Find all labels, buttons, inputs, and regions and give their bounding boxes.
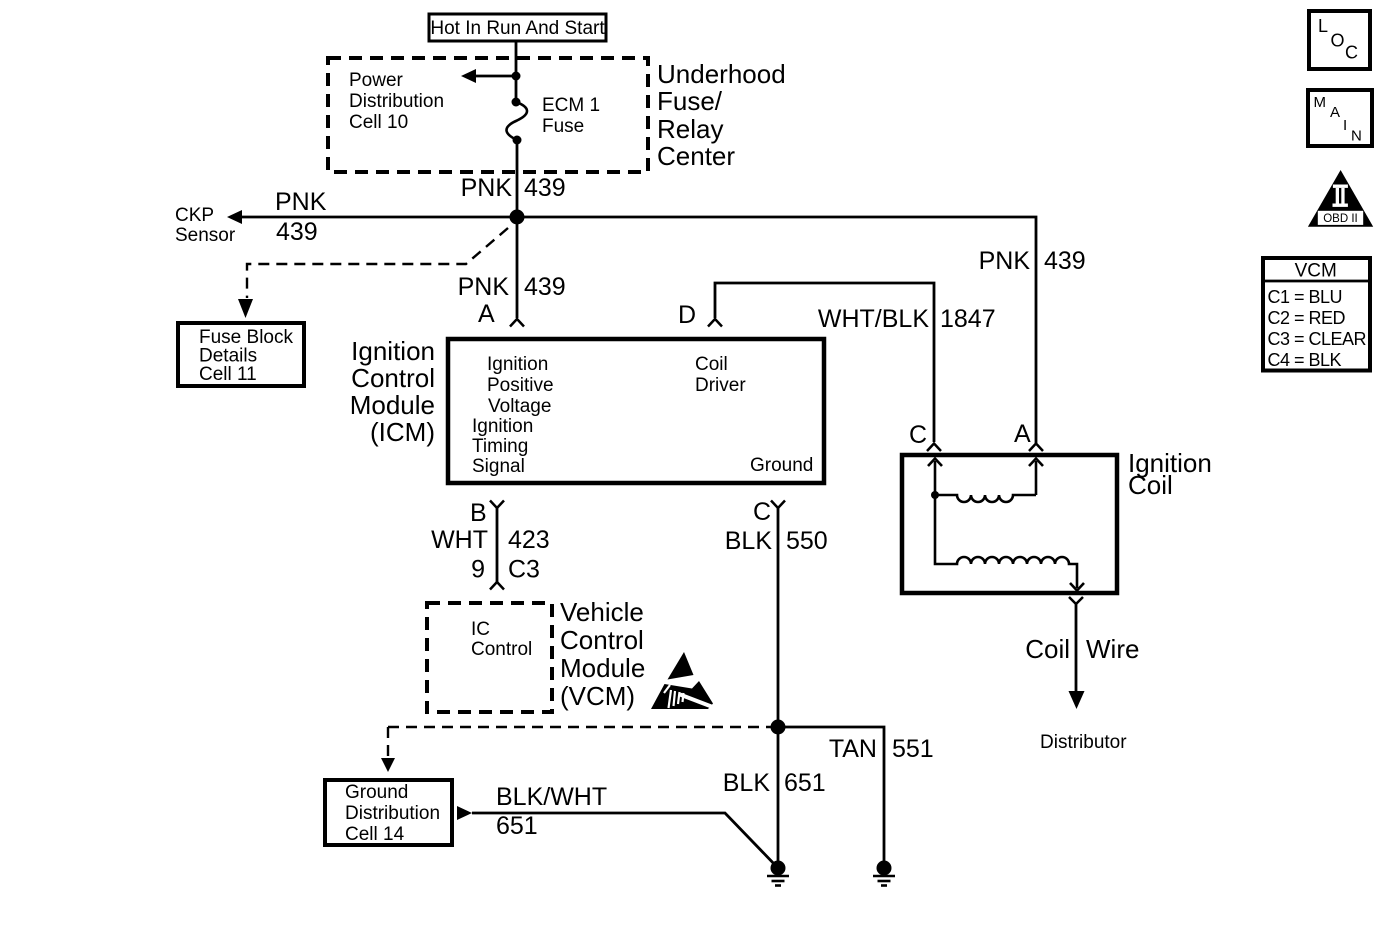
wire arrow to Power Distribution [461, 69, 516, 83]
coil internal junction dot [931, 491, 939, 499]
junction node BLK 550/651 [771, 720, 786, 735]
wire TAN 551 to ground [778, 727, 884, 862]
ESD sensitive symbol [651, 652, 714, 709]
svg-text:PNK: PNK [275, 188, 327, 216]
svg-text:I: I [1343, 117, 1347, 134]
wire junction to ICM pin A [516, 217, 519, 318]
svg-text:M: M [1314, 94, 1327, 111]
svg-text:Control: Control [351, 363, 435, 393]
svg-text:Cell 11: Cell 11 [199, 364, 257, 385]
svg-text:B: B [470, 499, 487, 527]
svg-text:VCM: VCM [1295, 261, 1337, 282]
svg-text:Center: Center [657, 141, 735, 171]
svg-text:Ground: Ground [345, 782, 408, 803]
wire WHT 423 pin B to VCM [496, 508, 499, 582]
OBD II symbol [1308, 170, 1373, 227]
label WHT 423 9 C3 [431, 526, 550, 584]
svg-text:Timing: Timing [472, 436, 528, 457]
svg-text:C: C [909, 421, 927, 449]
primary winding [935, 495, 1036, 502]
svg-text:PNK: PNK [979, 247, 1031, 275]
MAIN legend box [1308, 90, 1372, 146]
svg-text:L: L [1318, 16, 1328, 36]
transformer Ignition Coil box [902, 455, 1117, 593]
junction above fuse [512, 72, 521, 81]
svg-text:(ICM): (ICM) [370, 417, 435, 447]
secondary winding [935, 495, 1077, 588]
svg-text:439: 439 [1044, 247, 1086, 275]
label Vehicle Control Module (VCM) [560, 597, 645, 711]
LOC legend box [1309, 11, 1370, 69]
connector chevron coil pin C [927, 444, 941, 452]
svg-text:Sensor: Sensor [175, 225, 236, 246]
label ECM 1 Fuse [542, 95, 600, 137]
svg-text:WHT/BLK: WHT/BLK [818, 305, 929, 333]
svg-text:651: 651 [496, 812, 538, 840]
coil internal arrow at A [1029, 459, 1043, 496]
wire BLK 550 [777, 508, 780, 727]
svg-text:BLK: BLK [725, 527, 773, 555]
svg-text:CKP: CKP [175, 205, 214, 226]
VCM dashed box [427, 603, 552, 712]
label PNK 439 at pin A [458, 273, 566, 301]
svg-text:423: 423 [508, 526, 550, 554]
svg-text:A: A [1330, 104, 1340, 121]
svg-text:Voltage: Voltage [488, 396, 551, 417]
svg-text:PNK: PNK [461, 174, 513, 202]
label BLK 651 [723, 769, 826, 797]
wire BLK 651 to ground [777, 727, 780, 862]
svg-text:Cell 10: Cell 10 [349, 112, 408, 133]
svg-text:Ignition: Ignition [351, 336, 435, 366]
svg-text:OBD II: OBD II [1323, 213, 1358, 225]
label Ignition Control Module (ICM) [350, 336, 435, 447]
svg-text:WHT: WHT [431, 526, 488, 554]
svg-text:550: 550 [786, 527, 828, 555]
svg-text:Signal: Signal [472, 456, 525, 477]
svg-text:C3 = CLEAR: C3 = CLEAR [1268, 329, 1367, 349]
svg-text:Coil: Coil [1025, 634, 1070, 664]
label PNK 439 top [461, 174, 566, 202]
coil internal arrow at C [928, 459, 942, 496]
svg-text:1847: 1847 [940, 305, 996, 333]
svg-text:Fuse: Fuse [542, 116, 584, 137]
wire WHT/BLK 1847 from D to coil C [715, 283, 934, 442]
VCM connector legend [1263, 258, 1370, 371]
wire PNK 439 junction to coil A [517, 217, 1036, 443]
svg-text:Module: Module [560, 653, 645, 683]
svg-text:Ignition: Ignition [472, 416, 533, 437]
label Coil Wire [1025, 634, 1139, 664]
svg-text:C3: C3 [508, 556, 540, 584]
label WHT/BLK 1847 [818, 305, 996, 333]
wire from Hot In Run And Start to fuse [515, 41, 518, 102]
label PNK 439 right [979, 247, 1086, 275]
svg-text:Hot In Run And Start: Hot In Run And Start [430, 18, 605, 39]
svg-text:Distributor: Distributor [1040, 732, 1127, 753]
ground symbol right [873, 861, 895, 886]
svg-text:439: 439 [276, 218, 318, 246]
svg-text:Coil: Coil [1128, 470, 1173, 500]
label BLK 550 [725, 527, 828, 555]
svg-text:Fuse/: Fuse/ [657, 86, 723, 116]
svg-text:PNK: PNK [458, 273, 510, 301]
svg-text:439: 439 [524, 273, 566, 301]
wire BLK/WHT 651 [472, 813, 778, 868]
connector chevron coil pin A [1029, 444, 1043, 452]
label TAN 551 [829, 735, 934, 763]
svg-text:TAN: TAN [829, 735, 877, 763]
dashed reference wire to Fuse Block Details [247, 228, 508, 298]
label CKP Sensor [175, 205, 236, 246]
svg-text:Positive: Positive [487, 375, 554, 396]
svg-text:551: 551 [892, 735, 934, 763]
svg-text:D: D [678, 301, 696, 329]
connector chevron pin D [708, 319, 722, 327]
label BLK/WHT 651 [496, 783, 607, 840]
ICM pin function labels [472, 354, 813, 477]
svg-text:Control: Control [471, 639, 532, 660]
wire fuse to main junction [516, 140, 519, 217]
svg-text:Cell 14: Cell 14 [345, 824, 405, 845]
svg-text:Underhood: Underhood [657, 59, 786, 89]
svg-text:Vehicle: Vehicle [560, 597, 644, 627]
svg-text:A: A [478, 300, 495, 328]
arrow from Ground Distribution box [457, 806, 472, 820]
svg-text:Ignition: Ignition [487, 354, 548, 375]
connector chevron ground pin C [771, 501, 785, 509]
wire to CKP Sensor [227, 210, 517, 224]
connector chevron pin B bottom [490, 582, 504, 590]
connector chevron pin A [510, 319, 524, 327]
svg-text:O: O [1331, 31, 1345, 51]
node Ground Distribution Cell 14 [325, 780, 452, 845]
svg-text:Distribution: Distribution [349, 91, 444, 112]
svg-text:N: N [1351, 128, 1362, 145]
svg-text:651: 651 [784, 769, 826, 797]
main junction node PNK 439 [510, 210, 525, 225]
svg-text:9: 9 [471, 556, 485, 584]
connector chevron coil output [1069, 597, 1083, 604]
svg-text:C1 = BLU: C1 = BLU [1268, 287, 1343, 307]
svg-text:BLK/WHT: BLK/WHT [496, 783, 607, 811]
node Hot In Run And Start [429, 14, 606, 41]
fuse ECM 1 [506, 98, 527, 145]
label Power Distribution Cell 10 [349, 70, 444, 133]
svg-text:Distribution: Distribution [345, 803, 440, 824]
op ICM box [448, 339, 824, 483]
svg-text:Module: Module [350, 390, 435, 420]
Underhood Fuse/Relay Center dashed box [328, 58, 648, 172]
arrow to Fuse Block Details [238, 299, 253, 318]
label Ignition Coil [1128, 448, 1212, 500]
svg-text:C2 = RED: C2 = RED [1268, 308, 1346, 328]
svg-text:A: A [1014, 420, 1031, 448]
svg-text:C: C [753, 498, 771, 526]
wire coil output to distributor [1069, 604, 1085, 709]
svg-text:C: C [1345, 43, 1358, 63]
ground symbol left [767, 861, 789, 886]
svg-text:Coil: Coil [695, 354, 728, 375]
label Underhood Fuse/Relay Center [657, 59, 786, 171]
label PNK 439 left [275, 188, 327, 246]
svg-text:439: 439 [524, 174, 566, 202]
svg-text:C4 = BLK: C4 = BLK [1268, 350, 1342, 370]
dashed reference wire to Ground Distribution [381, 727, 778, 772]
svg-text:Wire: Wire [1086, 634, 1139, 664]
label IC Control [471, 619, 532, 660]
svg-text:(VCM): (VCM) [560, 681, 635, 711]
svg-text:BLK: BLK [723, 769, 771, 797]
svg-text:Driver: Driver [695, 375, 746, 396]
svg-text:Ground: Ground [750, 455, 813, 476]
svg-text:Control: Control [560, 625, 644, 655]
coil internal output arrow [1070, 583, 1084, 591]
svg-text:Power: Power [349, 70, 404, 91]
node Fuse Block Details Cell 11 [178, 323, 304, 386]
svg-text:IC: IC [471, 619, 490, 640]
svg-text:ECM 1: ECM 1 [542, 95, 600, 116]
svg-text:Relay: Relay [657, 114, 723, 144]
connector chevron pin B top [490, 501, 504, 509]
